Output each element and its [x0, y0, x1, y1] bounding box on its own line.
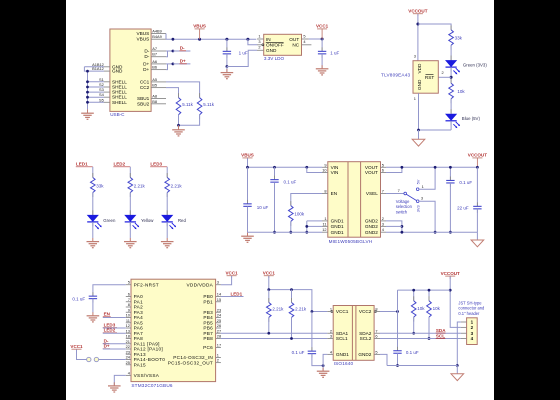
svg-text:SBU1: SBU1: [137, 96, 150, 101]
junction at C3: [273, 166, 276, 169]
svg-text:VIN: VIN: [331, 170, 339, 175]
junction VBUS at C1: [225, 38, 228, 41]
capacitor C6 22 uF: [476, 167, 478, 206]
svg-text:A6: A6: [152, 59, 157, 64]
svg-text:A8: A8: [152, 94, 157, 99]
svg-text:PC15-OSC32_OUT: PC15-OSC32_OUT: [168, 360, 213, 365]
svg-text:9: 9: [128, 307, 130, 312]
wire SCL (PB8 to ISO1640): [221, 338, 327, 340]
svg-text:switch: switch: [396, 209, 408, 214]
ground for input section: [247, 232, 249, 236]
wire LED1 to resistor: [92, 167, 94, 178]
connector J1 USB-C: [110, 29, 151, 111]
svg-text:VCCOUT: VCCOUT: [408, 8, 427, 13]
svg-text:6: 6: [375, 334, 377, 339]
svg-text:VCC1: VCC1: [316, 24, 329, 29]
ground for ISO side 1: [322, 366, 324, 372]
svg-text:GND2: GND2: [365, 230, 378, 235]
svg-text:VBUS: VBUS: [193, 24, 206, 29]
junction VBUS pins join: [172, 38, 175, 41]
svg-text:25: 25: [217, 318, 221, 323]
svg-text:3: 3: [382, 221, 384, 226]
junction GND1 bus bottom: [305, 231, 308, 234]
svg-text:PA1: PA1: [134, 299, 144, 304]
svg-text:26: 26: [217, 323, 221, 328]
svg-text:3: 3: [414, 54, 416, 59]
svg-text:D+: D+: [104, 344, 110, 349]
wire VOUT pin6 join: [386, 167, 402, 172]
svg-text:EN: EN: [104, 312, 110, 317]
wire LED2 to resistor: [129, 167, 131, 178]
wire RST pin to node: [438, 76, 451, 78]
svg-text:8: 8: [128, 302, 130, 307]
supervisor U2 TLV809EA43: [413, 61, 438, 93]
resistor 33k (LED1): [92, 173, 94, 178]
junction switch 3V3: [434, 231, 437, 234]
svg-text:7: 7: [382, 189, 384, 194]
junction R7 SCL: [290, 337, 293, 340]
junction GND2 pin3: [401, 225, 404, 228]
svg-text:VBUS: VBUS: [137, 37, 150, 42]
svg-text:11: 11: [126, 318, 130, 323]
svg-text:6: 6: [128, 292, 130, 297]
svg-text:VCCOUT: VCCOUT: [441, 271, 460, 276]
svg-text:PB8: PB8: [203, 336, 213, 341]
svg-text:PA8: PA8: [134, 336, 144, 341]
junction 100k bottom: [289, 231, 292, 234]
wire SDA2 to connector: [380, 332, 461, 334]
wire GND2 pin3: [386, 225, 402, 227]
svg-text:D-: D-: [144, 54, 149, 59]
svg-text:2: 2: [330, 328, 332, 333]
wire Green LED to ground: [92, 222, 94, 238]
svg-text:PA13: PA13: [134, 352, 146, 357]
junction R6 SDA: [267, 332, 270, 335]
ground for Green LED: [92, 238, 94, 242]
junction VCCOUT row3 rail: [449, 289, 452, 292]
wire EN to PA4: [103, 317, 126, 319]
svg-text:PA2: PA2: [134, 305, 144, 310]
svg-text:SCL1: SCL1: [336, 336, 348, 341]
ground for C2: [321, 65, 323, 69]
junction pullup rail R7: [290, 288, 293, 291]
junction VCCOUT branch: [416, 23, 419, 26]
wire D+ to PA12: [103, 348, 126, 350]
svg-text:STM32C071GBU6: STM32C071GBU6: [131, 383, 173, 388]
svg-text:OUT: OUT: [289, 37, 299, 42]
resistor R2 5.11k (CC1 pulldown): [199, 93, 201, 98]
svg-text:2: 2: [382, 216, 384, 221]
wire bottom rail of U2 section: [419, 129, 452, 131]
svg-text:18: 18: [126, 334, 130, 339]
wire VCC1 to ISO1640 pin1 and C8: [312, 311, 327, 313]
wire R6 to SDA: [268, 317, 270, 333]
resistor R3 33k: [450, 25, 452, 30]
LED Yellow: [129, 210, 131, 215]
svg-text:2.21k: 2.21k: [272, 306, 284, 311]
MCU U4 STM32C071GBU6: [131, 279, 216, 381]
ground for VSS: [113, 382, 115, 386]
wire 100k to ground rail: [290, 221, 292, 232]
svg-text:23: 23: [126, 349, 130, 354]
junction CC ground: [177, 124, 180, 127]
resistor R5 100k: [290, 201, 292, 206]
resistor 2.21k (LED2): [129, 173, 131, 178]
wire R4 to blue LED: [450, 99, 452, 113]
wire R7 to SCL: [291, 317, 293, 338]
wire LDO OUT to VCC1: [309, 38, 322, 40]
svg-text:PA11 [PA9]: PA11 [PA9]: [134, 341, 160, 346]
junction VCC2: [396, 310, 399, 313]
wire LED2 to PA7: [103, 332, 126, 334]
wire D- pair join: [166, 50, 173, 52]
J1 left pin stubs with pin numbers: [104, 66, 110, 68]
svg-text:7: 7: [128, 297, 130, 302]
svg-text:VDD: VDD: [417, 63, 422, 74]
svg-text:ISO1640: ISO1640: [334, 361, 354, 366]
svg-text:S5: S5: [99, 97, 104, 102]
svg-text:D-: D-: [144, 49, 149, 54]
svg-text:10k: 10k: [433, 306, 441, 311]
U5 VCC pin bubbles: [331, 311, 333, 313]
svg-text:PF2-NRST: PF2-NRST: [134, 282, 159, 287]
junction VBUS at supply flag: [198, 38, 201, 41]
wire resistor to Yellow LED: [129, 193, 131, 216]
wire GND1 bus: [307, 220, 322, 222]
wire blue LED to bottom rail: [450, 121, 452, 130]
regulator U3 MIE1W0505BGLVH: [328, 162, 381, 238]
wire GND2 join: [386, 221, 402, 232]
wire CC2 to R1: [166, 88, 179, 98]
svg-text:0.1 uF: 0.1 uF: [459, 180, 472, 185]
svg-text:SDA: SDA: [436, 328, 446, 333]
junction D-: [172, 50, 175, 53]
wire ground rail row2 right: [386, 231, 477, 233]
svg-text:15: 15: [217, 297, 221, 302]
svg-text:2: 2: [217, 358, 219, 363]
svg-text:1 uF: 1 uF: [239, 51, 248, 56]
svg-text:PB6: PB6: [203, 326, 213, 331]
svg-text:LED1: LED1: [76, 162, 88, 167]
wire ground rail row3: [387, 365, 457, 367]
svg-text:GND2: GND2: [365, 224, 378, 229]
svg-text:GND1: GND1: [336, 352, 349, 357]
junction VCC1: [321, 38, 324, 41]
svg-text:3.3V LDO: 3.3V LDO: [264, 56, 285, 61]
svg-text:28: 28: [217, 334, 221, 339]
connector J2 JST SH / header: [467, 318, 478, 345]
wire VCC1 pullup rail: [268, 276, 270, 290]
svg-text:8: 8: [324, 189, 326, 194]
svg-text:VDD/VDDA: VDD/VDDA: [186, 282, 213, 287]
wire jumper to PA14-BOOT0: [99, 359, 126, 361]
resistor R9 10k (SCL2 pull-up): [428, 290, 430, 301]
svg-text:0.1" header: 0.1" header: [458, 311, 480, 316]
svg-text:PA4: PA4: [134, 315, 144, 320]
svg-text:GND2: GND2: [358, 352, 371, 357]
svg-text:10k: 10k: [417, 306, 425, 311]
svg-text:USB-C: USB-C: [110, 112, 125, 117]
junction C5 top: [449, 166, 452, 169]
junction VBUS rail corner: [246, 166, 249, 169]
svg-text:Green: Green: [103, 218, 116, 223]
wire VCCOUT down to U2 VDD: [417, 14, 419, 61]
svg-text:PA12 [PA10]: PA12 [PA10]: [134, 347, 163, 352]
svg-text:GND1: GND1: [331, 224, 344, 229]
svg-text:8: 8: [375, 307, 377, 312]
svg-text:PB0: PB0: [203, 294, 213, 299]
svg-text:0.1 uF: 0.1 uF: [292, 350, 305, 355]
resistor R7 2.21k (SCL pull-up): [291, 290, 293, 303]
junction ISO GND1: [322, 364, 325, 367]
svg-text:10k: 10k: [457, 89, 465, 94]
resistor R1 5.11k (CC2 pulldown): [178, 93, 180, 98]
svg-text:100k: 100k: [294, 211, 305, 216]
svg-text:PA6: PA6: [134, 326, 144, 331]
svg-text:25: 25: [126, 360, 130, 365]
svg-text:SDA1: SDA1: [336, 331, 349, 336]
svg-text:5: 5: [375, 349, 377, 354]
svg-text:PB1: PB1: [203, 299, 213, 304]
svg-text:5: 5: [128, 280, 130, 285]
svg-text:GND2: GND2: [365, 219, 378, 224]
svg-text:PA3: PA3: [134, 310, 144, 315]
junction R8 top: [412, 289, 415, 292]
svg-text:MIE1W0505BGLVH: MIE1W0505BGLVH: [329, 239, 373, 244]
svg-text:CC1: CC1: [140, 79, 150, 84]
svg-text:1: 1: [422, 184, 424, 189]
capacitor C9 0.1 uF (ISO VCC2): [397, 347, 399, 351]
svg-text:PA14-BOOT0: PA14-BOOT0: [134, 357, 166, 362]
svg-text:12: 12: [322, 227, 326, 232]
svg-text:6: 6: [382, 168, 384, 173]
svg-text:1 uF: 1 uF: [330, 51, 339, 56]
svg-text:VSEL: VSEL: [366, 191, 378, 196]
wire switch 5V position to VCCOUT: [419, 167, 435, 189]
svg-text:LED1: LED1: [231, 291, 243, 296]
wire VBUS net (USB-C to LDO input): [165, 34, 167, 40]
svg-text:VOUT: VOUT: [365, 170, 378, 175]
capacitor C2 1 uF (VCC1): [321, 39, 323, 51]
svg-text:17: 17: [217, 343, 221, 348]
wire SHELL bus: [88, 81, 105, 83]
svg-text:VCCOUT: VCCOUT: [468, 153, 487, 158]
svg-text:1: 1: [258, 33, 260, 38]
svg-text:2.21k: 2.21k: [295, 306, 307, 311]
svg-text:VCC1: VCC1: [226, 270, 239, 275]
wire D- to label: [173, 50, 191, 52]
junction pullup rail left: [267, 288, 270, 291]
junction R9 SCL2: [428, 337, 431, 340]
junction VOUT join: [401, 166, 404, 169]
wire LDO ON/OFF tie to IN: [248, 39, 257, 45]
svg-text:B8: B8: [152, 99, 157, 104]
capacitor C5 0.1 uF (VCCOUT): [449, 167, 451, 180]
svg-text:D+: D+: [180, 59, 186, 64]
junction U2 ground: [417, 129, 420, 132]
resistor R4 10k: [450, 79, 452, 84]
LED Red: [166, 210, 168, 215]
junction GND1 pin11: [305, 225, 308, 228]
wire CC1 to R2: [166, 82, 200, 98]
junction VBUS at LDO enable branch: [246, 38, 249, 41]
wire VOUT rail row2: [386, 166, 477, 168]
wire switch 3V3 position to ground rail: [419, 201, 435, 232]
wire VCCOUT branch to 33k: [418, 24, 451, 30]
svg-text:2: 2: [442, 70, 444, 75]
junction switch 5V: [434, 166, 437, 169]
svg-text:3V3: 3V3: [415, 205, 420, 212]
svg-text:A7: A7: [152, 46, 157, 51]
svg-text:SDA2: SDA2: [359, 331, 372, 336]
svg-text:VBUS: VBUS: [137, 31, 150, 36]
svg-text:12: 12: [126, 323, 130, 328]
svg-text:VCC2: VCC2: [359, 309, 372, 314]
svg-text:2.21k: 2.21k: [171, 184, 183, 189]
svg-text:LED2: LED2: [104, 328, 116, 333]
svg-text:GND1: GND1: [331, 219, 344, 224]
svg-text:VBUS: VBUS: [241, 153, 254, 158]
svg-text:0.1 uF: 0.1 uF: [284, 179, 297, 184]
svg-text:PA15: PA15: [134, 362, 146, 367]
svg-text:RST: RST: [425, 75, 435, 80]
svg-text:NC: NC: [292, 43, 299, 48]
ground for USB-C shell: [87, 109, 89, 113]
junction VCCOUT rail: [476, 166, 479, 169]
svg-text:SCL: SCL: [436, 333, 445, 338]
LED D1 Green (3V3): [450, 56, 452, 61]
junction C3 bottom: [273, 231, 276, 234]
isolator U5 ISO1640: [333, 306, 374, 361]
svg-text:PA7: PA7: [134, 331, 144, 336]
svg-text:EN: EN: [331, 191, 338, 196]
svg-text:CC2: CC2: [140, 85, 150, 90]
svg-text:3: 3: [217, 280, 219, 285]
svg-text:22: 22: [126, 344, 130, 349]
junction at VIN pin10 branch: [305, 166, 308, 169]
svg-text:3: 3: [421, 196, 423, 201]
junction RST node: [450, 76, 453, 79]
svg-text:PA0: PA0: [134, 294, 144, 299]
wire ISO GND1 pin: [323, 354, 327, 365]
wire VCC2 rail: [398, 289, 451, 291]
wire resistor to Red LED: [166, 193, 168, 216]
svg-text:11: 11: [323, 221, 327, 226]
wire GND pair join: [84, 66, 104, 68]
svg-text:PB5: PB5: [203, 320, 213, 325]
ground for CC pulldowns: [178, 125, 180, 130]
capacitor C1 1 uF (VBUS): [226, 39, 228, 51]
svg-text:GND: GND: [112, 69, 123, 74]
svg-text:PC6: PC6: [203, 345, 213, 350]
svg-text:B5: B5: [152, 83, 157, 88]
wire EN pin to 100k: [291, 194, 322, 206]
svg-text:A4B9: A4B9: [152, 29, 162, 34]
svg-text:5: 5: [303, 33, 305, 38]
svg-text:Red: Red: [178, 218, 187, 223]
wire GND2 to ground rail: [380, 354, 387, 365]
wire LED3 to PA6: [103, 327, 126, 329]
junction connector ground: [456, 364, 459, 367]
wire VBUS rail row2: [247, 158, 249, 167]
wire D+ pair join: [166, 63, 173, 65]
svg-text:PA5: PA5: [134, 320, 144, 325]
junction R9 top: [428, 289, 431, 292]
wire Red LED to ground: [166, 222, 168, 238]
ground for Red LED: [166, 238, 168, 242]
jumper pad circles: [87, 357, 91, 361]
svg-text:VCC1: VCC1: [70, 344, 83, 349]
svg-text:GND: GND: [266, 48, 277, 53]
wire SCL2 to connector: [380, 338, 461, 340]
svg-text:Blue (5V): Blue (5V): [462, 116, 481, 121]
svg-text:13: 13: [126, 328, 130, 333]
junction GND2 bus: [401, 231, 404, 234]
ground for C7: [92, 312, 94, 316]
svg-text:2: 2: [258, 45, 260, 50]
wire U2 GND pin down: [418, 93, 420, 130]
svg-text:B4A9: B4A9: [152, 34, 162, 39]
svg-text:SBU2: SBU2: [137, 101, 150, 106]
wire VIN pin10 branch: [307, 167, 322, 172]
svg-text:3: 3: [258, 39, 260, 44]
wire connector pin1 to ground: [457, 322, 461, 366]
wire VCC2 vertical + C9: [397, 290, 399, 351]
ground for Yellow LED: [129, 238, 131, 242]
svg-text:D+: D+: [143, 67, 149, 72]
capacitor C7 0.1 uF (NRST): [93, 285, 126, 296]
junction D+: [172, 63, 175, 66]
svg-text:TLV809EA43: TLV809EA43: [381, 72, 410, 77]
svg-text:27: 27: [217, 328, 221, 333]
wire VSS to ground: [114, 375, 126, 386]
svg-text:0.1 uF: 0.1 uF: [406, 350, 419, 355]
junction C5 bottom: [449, 231, 452, 234]
svg-text:IN: IN: [266, 37, 271, 42]
svg-text:VCC1: VCC1: [336, 309, 349, 314]
svg-text:22 uF: 22 uF: [457, 206, 469, 211]
J1 right pin stubs with pin numbers: [151, 33, 166, 35]
resistor 2.21k (LED3): [166, 173, 168, 178]
LED Green: [92, 210, 94, 215]
svg-text:LED2: LED2: [114, 162, 126, 167]
svg-text:5.11k: 5.11k: [182, 102, 193, 107]
svg-text:B6: B6: [152, 65, 157, 70]
junction C1 bottom: [226, 65, 229, 68]
junction SHELL bus top: [86, 70, 89, 73]
junction C9 bottom: [396, 364, 399, 367]
ground for U2 section (triangle): [418, 130, 420, 139]
resistor R6 2.21k (SDA pull-up): [268, 290, 270, 303]
wire D- to PA11: [103, 343, 126, 345]
wire LED1 to PB0: [221, 296, 244, 298]
wire ground rail row2 left: [248, 231, 323, 233]
wire C1 ground to LDO GND pin: [227, 50, 257, 66]
svg-text:3: 3: [330, 334, 332, 339]
svg-text:7: 7: [375, 328, 377, 333]
svg-text:D-: D-: [180, 46, 185, 51]
svg-text:SCL2: SCL2: [360, 336, 372, 341]
svg-text:23: 23: [217, 307, 221, 312]
svg-text:33k: 33k: [96, 184, 104, 189]
svg-text:33k: 33k: [455, 36, 463, 41]
svg-text:LED3: LED3: [150, 162, 162, 167]
wire green LED to RST node: [450, 67, 452, 83]
capacitor C8 0.1 uF (ISO VCC1): [311, 347, 313, 351]
wire LED3 to resistor: [166, 167, 168, 178]
svg-text:A5: A5: [152, 77, 157, 82]
wire resistor to Green LED: [92, 193, 94, 216]
